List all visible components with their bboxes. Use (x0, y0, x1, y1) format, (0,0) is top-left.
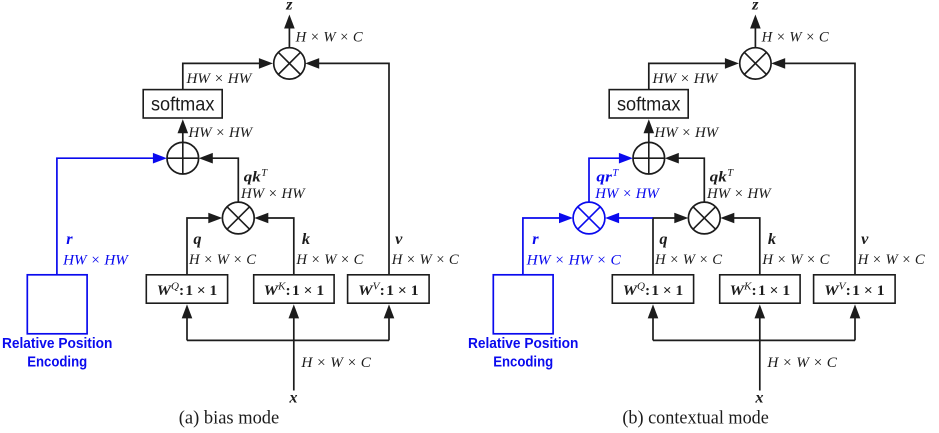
svg-text:WK: 1 × 1: WK: 1 × 1 (264, 282, 325, 300)
wire z output arrow (b) (750, 15, 761, 49)
wire softmax to output multiply (a) (183, 58, 273, 90)
svg-text:HW × HW: HW × HW (594, 185, 660, 202)
softmax box (b) (609, 90, 688, 118)
multiply node output (a) (274, 48, 305, 79)
svg-text:x: x (754, 387, 763, 406)
svg-text:H × W × C: H × W × C (295, 29, 364, 46)
multiply node qk (a) (222, 202, 254, 234)
svg-text:qkT: qkT (244, 168, 268, 186)
svg-text:r: r (66, 229, 73, 248)
svg-text:HW × HW: HW × HW (706, 185, 772, 202)
wire k to multiply (a) (254, 213, 293, 275)
add node (b) (633, 142, 665, 174)
svg-text:WK: 1 × 1: WK: 1 × 1 (730, 282, 791, 300)
wire r to add node (a) (57, 153, 167, 275)
projection box W^Q (a) (146, 275, 227, 303)
wire q to blue multiply (b) (605, 213, 653, 224)
wire qkT to add (a) (199, 153, 239, 202)
wire v to output multiply (a) (305, 58, 389, 275)
wire qrT to add (b) (589, 153, 633, 202)
svg-text:WQ: 1 × 1: WQ: 1 × 1 (623, 282, 684, 300)
svg-text:H × W × C: H × W × C (654, 251, 723, 268)
svg-text:HW × HW: HW × HW (654, 124, 720, 141)
svg-text:(a) bias mode: (a) bias mode (179, 408, 280, 429)
projection box W^K (b) (720, 275, 800, 303)
svg-text:H × W × C: H × W × C (300, 354, 371, 371)
wire q to multiply (b) (653, 213, 688, 275)
svg-text:softmax: softmax (151, 94, 215, 115)
wire input to box at x=389 (b) (850, 304, 861, 340)
svg-text:H × W × C: H × W × C (295, 251, 364, 268)
softmax box (a) (143, 90, 222, 118)
svg-text:z: z (285, 0, 293, 14)
svg-text:Relative Position: Relative Position (2, 335, 113, 352)
svg-text:Encoding: Encoding (27, 353, 87, 370)
svg-text:k: k (302, 229, 311, 248)
relative position encoding box (b) (493, 275, 553, 334)
wire input to box at x=187 (b) (648, 304, 659, 340)
svg-text:qrT: qrT (596, 168, 619, 186)
svg-text:q: q (659, 229, 667, 248)
svg-text:q: q (193, 229, 201, 248)
wire add to softmax (b) (644, 119, 655, 142)
wire input to box at x=187 (a) (182, 304, 193, 340)
svg-text:qkT: qkT (710, 168, 735, 186)
projection box W^K (a) (254, 275, 334, 303)
wire x riser (b) (759, 340, 761, 391)
svg-text:WV: 1 × 1: WV: 1 × 1 (358, 282, 419, 300)
svg-text:H × W × C: H × W × C (391, 251, 460, 268)
svg-text:HW × HW: HW × HW (240, 185, 306, 202)
wire input to box at x=389 (a) (384, 304, 395, 340)
svg-text:WV: 1 × 1: WV: 1 × 1 (824, 282, 885, 300)
add node (a) (167, 142, 199, 174)
svg-text:HW × HW: HW × HW (62, 252, 129, 269)
wire input bus (a) (187, 339, 389, 341)
svg-text:H × W × C: H × W × C (766, 354, 837, 371)
wire x riser (a) (293, 340, 295, 391)
wire add to softmax (a) (178, 119, 189, 142)
projection box W^Q (b) (612, 275, 693, 303)
svg-text:HW × HW × C: HW × HW × C (526, 252, 622, 269)
multiply node qr blue (b) (573, 202, 605, 234)
svg-text:H × W × C: H × W × C (761, 251, 830, 268)
svg-text:H × W × C: H × W × C (761, 29, 830, 46)
svg-text:z: z (751, 0, 759, 14)
relative position encoding box (a) (27, 275, 87, 334)
svg-text:(b) contextual mode: (b) contextual mode (622, 408, 769, 429)
multiply node output (b) (740, 48, 771, 79)
wire z output arrow (a) (284, 15, 295, 49)
svg-text:r: r (532, 229, 539, 248)
wire input bus (b) (653, 339, 855, 341)
wire softmax to output multiply (b) (649, 58, 739, 90)
wire v to output multiply (b) (771, 58, 855, 275)
svg-text:Relative Position: Relative Position (468, 335, 579, 352)
svg-text:x: x (288, 387, 297, 406)
svg-text:H × W × C: H × W × C (857, 251, 926, 268)
projection box W^V (a) (348, 275, 430, 303)
wire qkT to add (b) (665, 153, 705, 202)
projection box W^V (b) (814, 275, 896, 303)
svg-text:v: v (861, 229, 869, 248)
svg-text:k: k (768, 229, 777, 248)
wire r to blue multiply (b) (523, 213, 573, 275)
svg-text:HW × HW: HW × HW (188, 124, 254, 141)
wire k to multiply (b) (720, 213, 760, 275)
svg-text:HW × HW: HW × HW (652, 70, 719, 87)
svg-text:H × W × C: H × W × C (188, 251, 257, 268)
svg-text:softmax: softmax (617, 94, 681, 115)
multiply node qk (b) (688, 202, 720, 234)
wire input to box at x=293.8 (b) (755, 304, 766, 340)
svg-text:v: v (395, 229, 403, 248)
wire input to box at x=293.8 (a) (289, 304, 300, 340)
wire q to multiply (a) (187, 213, 222, 275)
svg-text:WQ: 1 × 1: WQ: 1 × 1 (157, 282, 218, 300)
svg-text:Encoding: Encoding (493, 353, 553, 370)
svg-text:HW × HW: HW × HW (186, 70, 253, 87)
